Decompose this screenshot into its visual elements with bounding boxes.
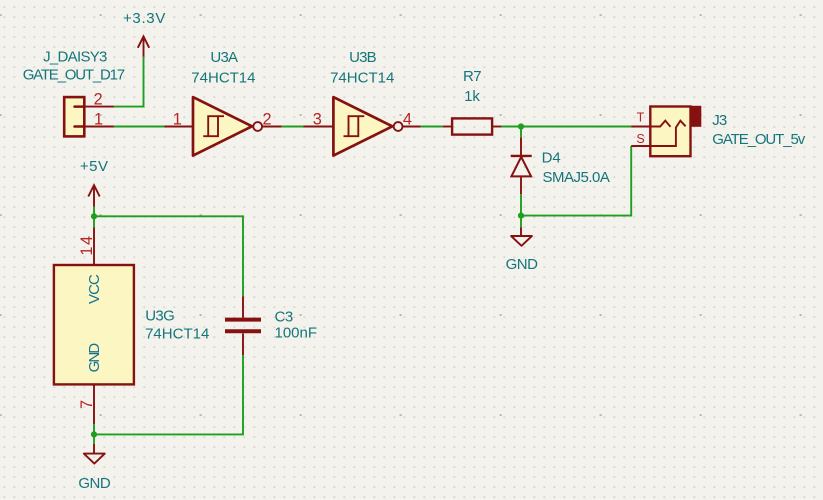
pin top of C3 xyxy=(242,297,244,318)
op-amp U3A inverter xyxy=(193,97,262,156)
wire junction2 to J3 sleeve xyxy=(521,146,631,216)
pin S of J3 xyxy=(631,145,650,147)
wire junction4 to GND xyxy=(93,434,95,444)
pin bottom of D4 xyxy=(520,177,522,194)
pin 7 of U3G xyxy=(93,384,95,424)
svg-text:1: 1 xyxy=(173,110,182,128)
wire R7 to J3 tip xyxy=(501,126,631,128)
pin T of J3 xyxy=(631,126,650,128)
svg-text:U3B: U3B xyxy=(349,49,377,66)
svg-text:74HCT14: 74HCT14 xyxy=(330,69,394,86)
pin 1 of J_DAISY3 xyxy=(84,126,114,128)
wire D4 to junction2 xyxy=(520,194,522,215)
svg-text:GATE_OUT_5v: GATE_OUT_5v xyxy=(712,131,805,148)
svg-text:2: 2 xyxy=(94,90,103,108)
svg-text:GATE_OUT_D17: GATE_OUT_D17 xyxy=(23,67,125,84)
svg-text:U3A: U3A xyxy=(210,49,238,66)
wire conn pin1 to U3A input xyxy=(114,126,165,128)
pin 2 of J_DAISY3 xyxy=(84,106,114,108)
pin left of R7 xyxy=(443,126,452,128)
pin 2 of U3A xyxy=(262,126,282,128)
svg-text:T: T xyxy=(637,111,645,125)
ground GND bottom xyxy=(84,444,105,464)
pin right of R7 xyxy=(492,126,501,128)
svg-text:100nF: 100nF xyxy=(275,324,318,341)
pin 4 of U3B xyxy=(403,126,421,128)
wire U3B output to R7 xyxy=(421,126,443,128)
wire junction to D4 xyxy=(520,127,522,138)
svg-text:R7: R7 xyxy=(463,68,481,85)
connector J3 audio jack xyxy=(650,106,701,156)
pin 3 of U3B xyxy=(304,126,334,128)
svg-text:VCC: VCC xyxy=(86,274,103,304)
power +5V xyxy=(88,185,99,207)
wire U3A output to U3B input xyxy=(282,126,304,128)
op-amp U3G power unit xyxy=(54,265,134,384)
svg-text:GND: GND xyxy=(506,256,539,273)
wire U3G pin7 to junction4 xyxy=(93,424,95,434)
pin bottom of C3 xyxy=(242,333,244,355)
svg-text:1: 1 xyxy=(94,110,103,128)
svg-text:4: 4 xyxy=(403,110,412,128)
connector J_DAISY3 xyxy=(64,97,84,136)
junction node GND/C3/pin7 xyxy=(91,431,97,437)
svg-text:C3: C3 xyxy=(275,309,293,326)
svg-text:2: 2 xyxy=(262,110,271,128)
junction node D4/GND/J3 sleeve xyxy=(518,213,524,219)
svg-text:+5V: +5V xyxy=(80,158,109,175)
svg-text:14: 14 xyxy=(78,234,96,255)
svg-text:SMAJ5.0A: SMAJ5.0A xyxy=(543,169,610,186)
pin 14 of U3G xyxy=(93,228,95,266)
pin top of D4 xyxy=(520,138,522,155)
op-amp U3B inverter xyxy=(333,97,402,156)
svg-text:J_DAISY3: J_DAISY3 xyxy=(43,49,107,66)
svg-text:+3.3V: +3.3V xyxy=(123,10,166,27)
resistor R7 xyxy=(452,118,492,134)
wire C3 bottom to junction4 xyxy=(94,355,243,434)
wire junction2 to GND xyxy=(520,216,522,228)
capacitor C3 xyxy=(225,320,261,332)
svg-text:GND: GND xyxy=(86,343,103,373)
ground GND near D4 xyxy=(511,227,532,246)
junction node R7/D4/J3 xyxy=(518,123,524,129)
wire net pin2 to +3.3V xyxy=(114,57,144,107)
junction node +5V/VCC/C3 xyxy=(91,213,97,219)
svg-text:1k: 1k xyxy=(464,88,480,105)
svg-text:GND: GND xyxy=(78,475,111,492)
svg-text:J3: J3 xyxy=(712,112,727,129)
wire +5V to junction3 xyxy=(93,207,95,217)
svg-text:D4: D4 xyxy=(542,149,561,166)
power +3.3V xyxy=(138,36,149,56)
svg-text:U3G: U3G xyxy=(145,307,174,324)
svg-text:74HCT14: 74HCT14 xyxy=(145,325,209,342)
wire junction3 to C3 top xyxy=(94,216,243,296)
diode D4 TVS xyxy=(511,156,532,177)
svg-text:74HCT14: 74HCT14 xyxy=(191,70,255,87)
pin 1 of U3A xyxy=(165,126,194,128)
wire junction3 to U3G pin14 xyxy=(93,216,95,227)
svg-text:7: 7 xyxy=(78,400,96,409)
svg-text:3: 3 xyxy=(313,110,322,128)
svg-text:S: S xyxy=(636,132,644,146)
